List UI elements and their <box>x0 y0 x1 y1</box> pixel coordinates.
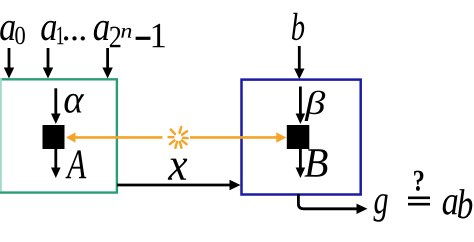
label alpha <box>65 94 85 113</box>
entangled link: orange arrow to Alice square <box>66 132 163 142</box>
input arrow a_2^n-1 <box>102 48 112 79</box>
node Alice measurement (black square) <box>43 125 65 149</box>
label a_2^n-1 <box>94 21 165 47</box>
output elbow arrow g <box>298 194 367 214</box>
output arrow B <box>296 149 306 178</box>
input arrow b <box>294 46 304 79</box>
entangled link: orange arrow to Bob square <box>190 132 286 142</box>
node Bob measurement (black square) <box>287 125 310 149</box>
label g <box>374 194 388 222</box>
box Bob (blue) <box>242 80 361 195</box>
equals sign <box>408 198 430 204</box>
label B <box>305 149 328 177</box>
label A <box>65 150 86 178</box>
label a0 <box>0 21 25 44</box>
wire beta input arrow <box>296 87 306 125</box>
label ? (over equals) <box>414 171 423 191</box>
label x <box>168 159 187 180</box>
wire alpha input arrow <box>51 88 61 124</box>
label a1 <box>41 21 63 44</box>
message arrow x (Alice to Bob) <box>117 180 241 190</box>
label beta <box>305 91 326 121</box>
starburst (entangled pair source) <box>169 127 188 148</box>
input arrow a1 <box>43 48 53 79</box>
output arrow A <box>51 149 61 178</box>
label a_b <box>443 189 473 218</box>
box Alice (green, left edge clipped pale) <box>0 78 117 193</box>
input arrow a0 <box>4 48 14 79</box>
ellipsis dots <box>64 36 85 40</box>
label b <box>292 13 304 40</box>
